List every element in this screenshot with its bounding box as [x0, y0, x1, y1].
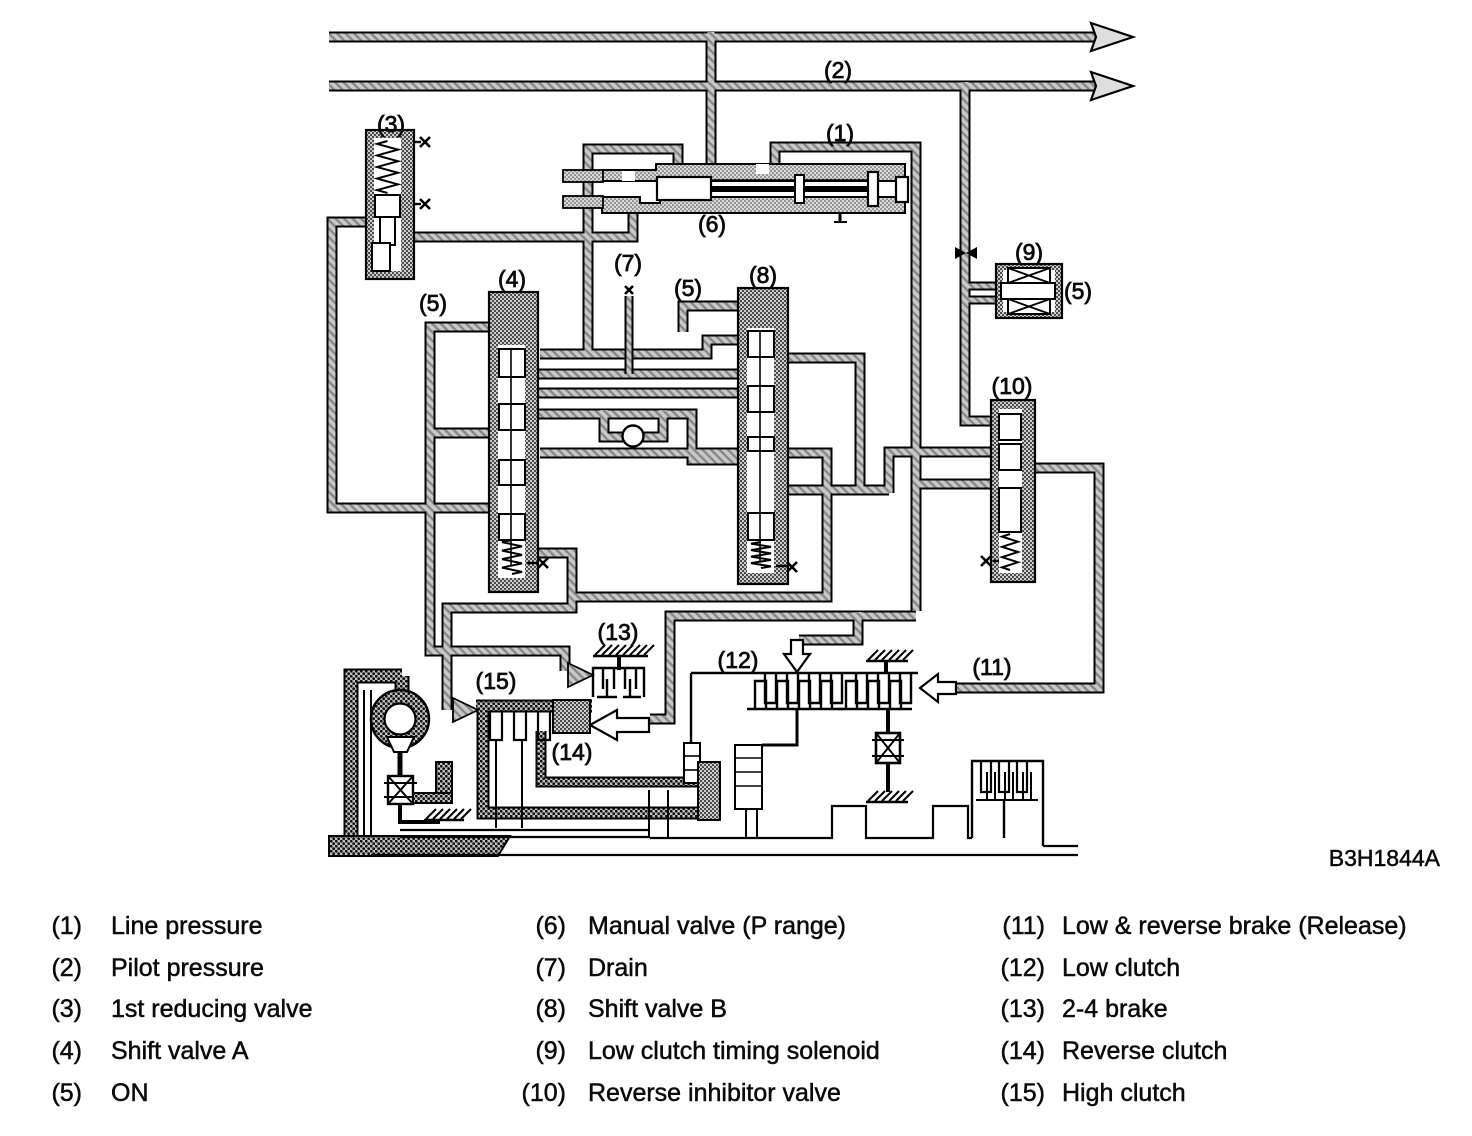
svg-text:(4): (4): [498, 266, 526, 292]
svg-text:(8): (8): [535, 995, 566, 1023]
svg-text:(5): (5): [674, 275, 702, 301]
svg-text:(6): (6): [698, 211, 726, 237]
svg-text:2-4 brake: 2-4 brake: [1062, 995, 1168, 1023]
svg-text:(12): (12): [1001, 954, 1045, 982]
svg-text:(15): (15): [1001, 1079, 1045, 1107]
svg-text:(7): (7): [614, 250, 642, 276]
svg-text:Reverse clutch: Reverse clutch: [1062, 1037, 1227, 1065]
svg-text:High clutch: High clutch: [1062, 1079, 1186, 1107]
svg-text:(15): (15): [476, 668, 517, 694]
svg-text:(1): (1): [826, 120, 854, 146]
svg-text:Line pressure: Line pressure: [111, 912, 262, 940]
svg-text:(2): (2): [824, 57, 852, 83]
svg-text:Low clutch timing solenoid: Low clutch timing solenoid: [588, 1037, 880, 1065]
svg-text:(14): (14): [1001, 1037, 1045, 1065]
svg-text:Pilot pressure: Pilot pressure: [111, 954, 264, 982]
svg-text:(3): (3): [377, 111, 405, 137]
svg-text:Manual valve (P range): Manual valve (P range): [588, 912, 846, 940]
svg-text:Drain: Drain: [588, 954, 648, 982]
svg-text:(9): (9): [535, 1037, 566, 1065]
svg-text:(11): (11): [1002, 912, 1045, 940]
svg-text:Shift valve B: Shift valve B: [588, 995, 727, 1023]
svg-text:(10): (10): [992, 373, 1033, 399]
svg-text:(5): (5): [419, 290, 447, 316]
svg-text:(11): (11): [972, 654, 1011, 680]
svg-text:(3): (3): [51, 995, 82, 1023]
svg-text:Shift valve A: Shift valve A: [111, 1037, 249, 1065]
svg-text:(12): (12): [718, 647, 759, 673]
svg-text:(9): (9): [1015, 239, 1043, 265]
svg-text:(14): (14): [552, 739, 593, 765]
svg-text:(10): (10): [522, 1079, 566, 1107]
svg-text:(5): (5): [1064, 278, 1092, 304]
svg-text:(13): (13): [1001, 995, 1045, 1023]
svg-text:B3H1844A: B3H1844A: [1329, 845, 1441, 871]
svg-text:(13): (13): [598, 619, 639, 645]
svg-text:(6): (6): [535, 912, 566, 940]
svg-text:(2): (2): [51, 954, 82, 982]
svg-text:(5): (5): [51, 1079, 82, 1107]
svg-text:Low clutch: Low clutch: [1062, 954, 1180, 982]
svg-text:(1): (1): [51, 912, 82, 940]
svg-text:1st reducing valve: 1st reducing valve: [111, 995, 313, 1023]
svg-text:ON: ON: [111, 1079, 149, 1107]
svg-text:(8): (8): [749, 262, 777, 288]
svg-text:(7): (7): [535, 954, 566, 982]
svg-text:Reverse inhibitor valve: Reverse inhibitor valve: [588, 1079, 841, 1107]
svg-text:Low & reverse brake (Release): Low & reverse brake (Release): [1062, 912, 1407, 940]
svg-text:(4): (4): [51, 1037, 82, 1065]
